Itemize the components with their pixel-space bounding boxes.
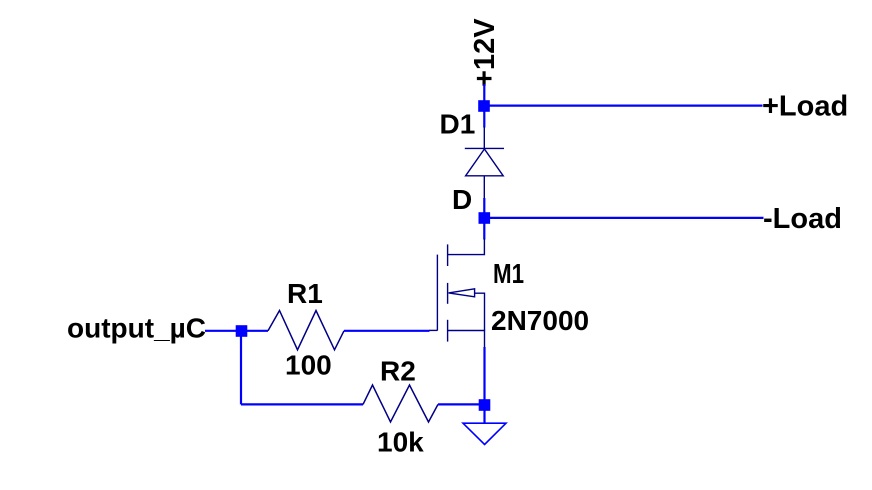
node B junction (drain / -Load) <box>479 212 491 224</box>
svg-text:M1: M1 <box>493 258 524 289</box>
wire node B to -Load <box>484 217 764 219</box>
resistor R1 <box>268 311 344 350</box>
node D junction (source / ground) <box>479 399 491 411</box>
wire node D to ground <box>483 405 485 423</box>
svg-text:-Load: -Load <box>763 203 842 235</box>
wire diode D1 to node B <box>483 198 485 218</box>
svg-text:R2: R2 <box>380 356 416 387</box>
svg-text:+Load: +Load <box>762 91 848 123</box>
resistor R2 <box>363 385 438 422</box>
ground <box>463 423 506 444</box>
wire node A down to diode D1 <box>483 106 485 128</box>
diode D1 <box>465 127 504 199</box>
svg-text:+12V: +12V <box>469 18 501 87</box>
svg-text:output_µC: output_µC <box>67 313 206 344</box>
wire node C down to resistor R2 branch <box>240 331 242 404</box>
svg-text:100: 100 <box>285 350 332 381</box>
svg-text:D: D <box>452 184 472 215</box>
svg-text:2N7000: 2N7000 <box>491 305 589 336</box>
wire node C to resistor R1 <box>242 330 269 332</box>
wire resistor R2 to node D <box>438 403 485 405</box>
wire from +12V label down to node A <box>483 84 485 106</box>
wire transistor M1 source down to node D <box>483 347 485 405</box>
wire resistor R1 to transistor M1 gate <box>344 330 430 332</box>
node A junction (+12V rail) <box>478 100 490 112</box>
wire node A to +Load <box>484 104 763 106</box>
svg-text:R1: R1 <box>287 278 323 309</box>
wire horizontal to resistor R2 <box>241 403 363 405</box>
svg-text:10k: 10k <box>377 427 424 458</box>
wire node B down to transistor M1 drain <box>483 218 485 240</box>
svg-text:D1: D1 <box>440 109 476 140</box>
node C junction (gate branch) <box>236 325 248 337</box>
transistor M1 (NMOS 2N7000) <box>429 239 485 348</box>
wire output_µC label to node C <box>205 330 242 332</box>
